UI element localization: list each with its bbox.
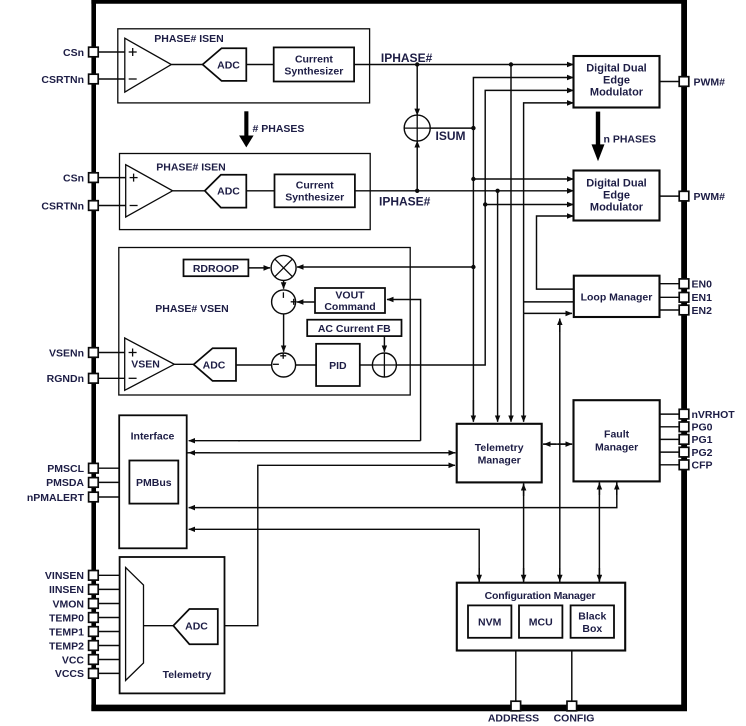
svg-text:PHASE# ISEN: PHASE# ISEN — [156, 161, 225, 173]
wire AC Current FB to adder S3 — [383, 336, 385, 352]
block RDROOP — [184, 260, 249, 277]
ADC (ISEN1) — [203, 48, 247, 81]
svg-text:ADC: ADC — [185, 621, 208, 633]
pin CSn (phase n) — [63, 172, 126, 184]
wire config manager down-arrow of interface net — [478, 568, 480, 581]
svg-text:AC Current FB: AC Current FB — [318, 323, 391, 335]
svg-text:Fault: Fault — [604, 428, 630, 440]
svg-text:Current: Current — [295, 53, 333, 65]
pin TEMP0 — [49, 612, 126, 624]
svg-text:VINSEN: VINSEN — [45, 570, 84, 582]
pin CFP — [660, 460, 713, 472]
svg-text:VOUT: VOUT — [335, 289, 365, 301]
node IPHASE#n/telemetry junction — [495, 189, 499, 193]
wire V1 to droop multiplier — [297, 266, 473, 268]
svg-text:PWM#: PWM# — [694, 76, 726, 88]
svg-text:NVM: NVM — [478, 616, 502, 628]
block NVM — [468, 605, 511, 637]
svg-text:Interface: Interface — [131, 431, 175, 443]
svg-text:PG0: PG0 — [692, 422, 713, 434]
pin TEMP2 — [49, 640, 126, 652]
svg-text:PMBus: PMBus — [136, 477, 172, 489]
ADC (VSEN) — [194, 348, 236, 381]
pin RGNDn — [47, 373, 125, 385]
svg-text:Synthesizer: Synthesizer — [285, 192, 344, 204]
node IPHASE#1/telemetry junction — [509, 62, 513, 66]
svg-text:Edge: Edge — [603, 190, 630, 202]
pin nVRHOT — [660, 409, 736, 421]
svg-text:EN1: EN1 — [692, 292, 713, 304]
pin PMSCL — [47, 463, 129, 475]
pin IINSEN — [49, 584, 126, 596]
svg-text:PG2: PG2 — [692, 447, 713, 459]
wire amp2 out — [173, 190, 205, 192]
wire interface to telemetry manager (bidirectional) — [188, 452, 456, 454]
block PHASE# ISEN (phase 1) container — [118, 29, 370, 103]
svg-text:n PHASES: n PHASES — [604, 133, 657, 145]
svg-text:VMON: VMON — [53, 598, 85, 610]
pin PMSDA — [46, 477, 129, 489]
svg-text:TEMP2: TEMP2 — [49, 640, 84, 652]
wire summer S1 down to summer S2 — [283, 314, 285, 352]
pin EN1 — [660, 292, 713, 304]
block Interface — [119, 415, 187, 548]
svg-text:IPHASE#: IPHASE# — [379, 195, 431, 209]
svg-text:Manager: Manager — [595, 441, 638, 453]
pin PG0 — [660, 422, 713, 434]
wire telemetry manager to config manager (V8) — [523, 484, 525, 583]
svg-text:CSn: CSn — [63, 47, 84, 59]
wire V1 to modulator 2 input 1 — [473, 178, 573, 180]
svg-text:Digital Dual: Digital Dual — [586, 178, 647, 190]
block PHASE# VSEN container — [119, 248, 410, 396]
svg-text:VCC: VCC — [62, 654, 85, 666]
pin EN2 — [660, 305, 713, 317]
wire loop manager to config manager (V6) — [559, 319, 561, 583]
wire ADC1 to synthesizer — [246, 64, 273, 66]
svg-text:CFP: CFP — [692, 460, 713, 472]
svg-text:Telemetry: Telemetry — [475, 442, 524, 454]
wire multiplier to summer S1 — [283, 280, 285, 288]
wire V5 to loop manager input 2 — [524, 301, 574, 303]
wire loop manager to modulator 2 input 4 — [537, 216, 574, 289]
wire telemetry ADC to telemetry manager — [218, 465, 455, 625]
svg-text:Synthesizer: Synthesizer — [284, 65, 343, 77]
svg-text:ADC: ADC — [203, 359, 226, 371]
svg-text:EN0: EN0 — [692, 279, 713, 291]
pin ADDRESS — [488, 651, 539, 725]
pin CONFIG — [554, 651, 595, 725]
mux (telemetry input selector) — [126, 568, 144, 681]
ADC (ISEN2) — [205, 175, 247, 208]
svg-text:Modulator: Modulator — [590, 87, 644, 99]
wire interface to VOUT Command — [387, 300, 421, 441]
pin VINSEN — [45, 570, 126, 582]
block Current Synthesizer (phase 1) — [274, 47, 354, 81]
node V1 branch to modulator 2 input 1 — [471, 177, 475, 181]
wire summer S2 to PID — [296, 364, 317, 366]
svg-text:Box: Box — [582, 623, 602, 635]
wire interface end arrow of VOUT Command net — [189, 440, 240, 442]
pin VMON — [53, 598, 126, 610]
node IPHASE#1/ISUM junction — [415, 62, 419, 66]
wire IPHASE#n net to modulator 2 input 2 — [355, 190, 574, 192]
wire fault manager up-arrow of interface net — [616, 483, 618, 495]
wire RDROOP to multiplier — [248, 267, 270, 269]
wire IPHASE#1 drop into ISUM — [416, 65, 418, 116]
summing junction ISUM — [404, 115, 430, 141]
block Loop Manager — [574, 276, 660, 317]
svg-text:IPHASE#: IPHASE# — [381, 51, 433, 65]
block VOUT Command — [315, 288, 385, 313]
wire bus V1 (ISUM net vertical) — [473, 78, 573, 421]
svg-text:Manager: Manager — [478, 454, 521, 466]
pin EN0 — [660, 279, 713, 291]
wire mux to telemetry ADC — [144, 625, 174, 627]
wire ADC2 to synthesizer — [246, 190, 274, 192]
block Telemetry container — [120, 557, 225, 693]
svg-text:# PHASES: # PHASES — [253, 123, 305, 135]
wire telemetry manager to fault manager (bidirectional) — [543, 443, 572, 445]
wire VSEN ADC to summer S2 — [236, 364, 272, 366]
pin CSRTNn (phase n) — [41, 200, 125, 212]
svg-text:PHASE# ISEN: PHASE# ISEN — [154, 33, 223, 45]
svg-text:PMSCL: PMSCL — [47, 463, 84, 475]
svg-text:Digital Dual: Digital Dual — [586, 63, 647, 75]
svg-text:PG1: PG1 — [692, 434, 713, 446]
svg-text:TEMP1: TEMP1 — [49, 626, 84, 638]
wire fault manager to config manager (V7) — [598, 483, 600, 583]
wire VSEN amp out — [174, 363, 193, 365]
svg-text:VCCS: VCCS — [55, 668, 84, 680]
summer S2 (error) — [272, 353, 296, 377]
pin PG1 — [660, 434, 713, 446]
node V1 branch to droop multiplier — [471, 265, 475, 269]
svg-text:nVRHOT: nVRHOT — [692, 409, 736, 421]
svg-text:Configuration Manager: Configuration Manager — [485, 590, 596, 602]
svg-text:PID: PID — [329, 360, 347, 372]
svg-text:CONFIG: CONFIG — [554, 713, 595, 725]
svg-text:Telemetry: Telemetry — [163, 669, 212, 681]
block PHASE# ISEN (phase n) container — [120, 154, 371, 230]
block PMBus — [129, 461, 178, 504]
svg-text:CSRTNn: CSRTNn — [41, 74, 84, 86]
svg-text:Black: Black — [578, 611, 606, 623]
modulator U1 Digital Dual Edge Modulator (phase 1) — [574, 56, 660, 108]
pin CSRTNn (phase 1) — [41, 74, 124, 86]
pin PG2 — [660, 447, 713, 459]
svg-text:Loop Manager: Loop Manager — [581, 291, 653, 303]
svg-text:TEMP0: TEMP0 — [49, 612, 84, 624]
pin VSENn — [49, 347, 125, 359]
wire config manager to interface — [189, 529, 480, 582]
svg-text:CSRTNn: CSRTNn — [41, 200, 84, 212]
op-amp ISEN1 — [125, 38, 172, 92]
svg-text:RGNDn: RGNDn — [47, 373, 84, 385]
block Configuration Manager — [457, 583, 625, 651]
svg-text:CSn: CSn — [63, 172, 84, 184]
block Current Synthesizer (phase n) — [275, 174, 355, 207]
svg-text:Edge: Edge — [603, 75, 630, 87]
wire fault manager to interface — [189, 482, 617, 508]
svg-text:IINSEN: IINSEN — [49, 584, 84, 596]
svg-text:VSEN: VSEN — [131, 358, 160, 370]
svg-text:EN2: EN2 — [692, 305, 713, 317]
wire VOUT Command to summer S1 — [297, 301, 315, 303]
block MCU — [519, 605, 562, 637]
block Fault Manager — [574, 400, 660, 481]
wire PID to adder S3 — [360, 364, 373, 366]
svg-text:MCU: MCU — [529, 616, 553, 628]
node IPHASE#n/ISUM junction — [415, 189, 419, 193]
pin TEMP1 — [49, 626, 126, 638]
op-amp ISEN2 — [126, 165, 173, 217]
wire bus V4 (IPHASE#1 to telemetry manager) — [510, 65, 512, 422]
pin nPMALERT — [27, 492, 130, 504]
svg-text:ADC: ADC — [217, 186, 240, 198]
n PHASES thick arrow — [592, 112, 657, 162]
svg-text:nPMALERT: nPMALERT — [27, 492, 85, 504]
pin PWM# (phase 1) — [660, 76, 726, 88]
pin CSn (phase 1) — [63, 47, 125, 59]
svg-text:VSENn: VSENn — [49, 347, 84, 359]
node V2 branch to modulator 2 input 3 — [483, 202, 487, 206]
wire V2 to modulator 2 input 3 — [485, 204, 573, 206]
wire bus V3 (IPHASE#n to telemetry manager) — [497, 191, 499, 422]
svg-text:Current: Current — [296, 180, 334, 192]
multiplier (droop) — [271, 255, 296, 280]
block Black Box — [571, 605, 614, 637]
svg-text:Modulator: Modulator — [590, 202, 644, 214]
wire V5 down into telemetry manager — [523, 313, 525, 421]
svg-text:ISUM: ISUM — [436, 129, 466, 143]
block AC Current FB — [307, 320, 401, 336]
# PHASES thick arrow — [239, 111, 304, 147]
svg-text:PMSDA: PMSDA — [46, 477, 84, 489]
svg-text:PWM#: PWM# — [694, 191, 726, 203]
block PID — [316, 344, 360, 386]
wire V1 arrow into Telemetry Manager — [472, 400, 474, 422]
summer S1 (vout command minus droop) — [272, 290, 297, 314]
pin VCCS — [55, 668, 126, 680]
modulator U2 Digital Dual Edge Modulator (phase n) — [574, 171, 660, 221]
wire bus V2 (compensator output) — [396, 90, 573, 365]
wire IPHASE#n rise into ISUM — [416, 141, 418, 191]
svg-text:PHASE# VSEN: PHASE# VSEN — [155, 303, 229, 315]
svg-text:ADC: ADC — [217, 59, 240, 71]
chip outer border — [91, 0, 687, 711]
svg-text:Command: Command — [324, 301, 375, 313]
pin PWM# (phase n) — [660, 191, 726, 203]
wire IPHASE#1 net to modulator 1 input 1 — [354, 64, 573, 66]
wire amp1 out — [171, 64, 202, 66]
pin VCC — [62, 654, 126, 666]
wire ISUM output to bus V1 — [430, 127, 473, 129]
block Telemetry Manager — [457, 424, 542, 483]
adder S3 (AC current feed-forward) — [372, 353, 396, 377]
wire V5 to loop manager input 3 — [524, 312, 572, 314]
wire bus V5 top corner to modulator 1 input 4 — [524, 103, 574, 314]
svg-text:RDROOP: RDROOP — [193, 263, 239, 275]
op-amp VSEN — [125, 338, 175, 390]
node ISUM output junction on V1 — [471, 126, 475, 130]
ADC (telemetry) — [173, 609, 218, 644]
svg-text:ADDRESS: ADDRESS — [488, 713, 539, 725]
